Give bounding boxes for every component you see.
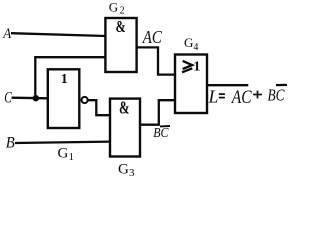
OR gate G4 box bbox=[175, 55, 207, 114]
svg-text:1: 1 bbox=[69, 151, 75, 163]
wire A input bbox=[11, 33, 105, 36]
svg-text:C: C bbox=[4, 90, 12, 107]
svg-text:&: & bbox=[119, 97, 130, 117]
svg-text:AC: AC bbox=[142, 27, 163, 47]
wire G3 output to G4 input 2 bbox=[140, 100, 175, 125]
svg-text:2: 2 bbox=[120, 5, 125, 16]
AND gate G3 box bbox=[110, 99, 140, 157]
wire B input bbox=[15, 142, 111, 143]
wire G1 output to G3 input bbox=[88, 100, 110, 115]
svg-text:G: G bbox=[109, 0, 118, 14]
AND gate G2 box bbox=[105, 18, 136, 72]
svg-text:L: L bbox=[208, 87, 219, 107]
svg-text:G: G bbox=[184, 35, 193, 50]
svg-text:G: G bbox=[118, 161, 129, 177]
G4 symbol >=1 bbox=[183, 61, 193, 69]
svg-text:3: 3 bbox=[129, 167, 135, 179]
svg-text:A: A bbox=[2, 26, 12, 42]
svg-text:&: & bbox=[116, 17, 126, 36]
wire G2 output to G4 input 1 bbox=[137, 47, 175, 74]
G1 output bubble bbox=[82, 97, 88, 103]
svg-text:1: 1 bbox=[193, 60, 200, 75]
svg-text:AC: AC bbox=[230, 88, 252, 108]
svg-text:BC: BC bbox=[153, 126, 169, 141]
svg-text:B: B bbox=[6, 135, 15, 152]
svg-text:1: 1 bbox=[61, 72, 68, 87]
NOT gate G1 box bbox=[48, 69, 80, 128]
junction dot on C wire bbox=[33, 95, 39, 101]
svg-text:BC: BC bbox=[268, 86, 286, 105]
svg-text:G: G bbox=[58, 146, 69, 162]
svg-text:4: 4 bbox=[193, 42, 198, 53]
wire G4 output bbox=[207, 84, 248, 86]
wire C input bbox=[12, 97, 48, 100]
wire junction up to G2 second input bbox=[35, 57, 105, 98]
